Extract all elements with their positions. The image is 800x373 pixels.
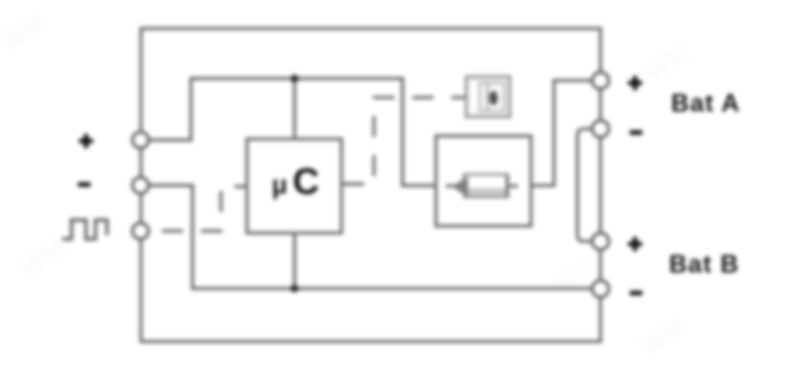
svg-text:Bat A: Bat A: [671, 90, 740, 118]
svg-text:Bat B: Bat B: [669, 251, 739, 279]
svg-text:µ: µ: [272, 170, 288, 200]
svg-text:C: C: [293, 161, 320, 202]
